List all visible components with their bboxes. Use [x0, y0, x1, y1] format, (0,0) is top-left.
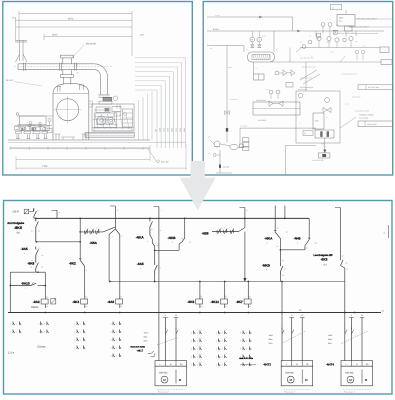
hatched inlet flange block	[103, 97, 112, 101]
vessel shell	[52, 93, 54, 140]
svg-text:2: 2	[197, 356, 198, 359]
svg-text:1: 1	[191, 364, 192, 367]
coil -9A5 (3)	[119, 295, 121, 299]
vessel skirt legs	[55, 134, 57, 140]
svg-text:2: 2	[246, 332, 247, 335]
svg-text:1: 1	[10, 331, 11, 334]
3-pole contact -N5A	[80, 231, 103, 233]
svg-text:xxx: xxx	[255, 68, 258, 70]
svg-text:Anl.Freigabe: Anl.Freigabe	[7, 221, 24, 225]
panel: P&ID diagram (top-right)	[203, 2, 393, 176]
svg-text:-9A5: -9A5	[107, 300, 114, 304]
relief group extra circles	[269, 90, 273, 94]
svg-text:Heat AUS Kette: Heat AUS Kette	[239, 357, 254, 360]
small box right of relief	[286, 83, 293, 88]
svg-text:XXXXX XXXXXX: XXXXX XXXXXX	[300, 86, 314, 89]
right side stacked dimension lines	[135, 89, 157, 91]
arrow to WE box	[324, 138, 326, 151]
wire: jog to coil column A	[36, 271, 46, 273]
svg-text:xx xx: xx xx	[262, 36, 266, 38]
svg-text:/64: /64	[16, 231, 20, 234]
svg-text:1: 1	[216, 356, 217, 359]
group F vertical from top x285 to rail	[284, 206, 286, 219]
equipment rectangle mid	[253, 102, 300, 115]
svg-text:1786: 1786	[167, 128, 170, 132]
svg-text:1-0-CLP-C7-R: 1-0-CLP-C7-R	[312, 159, 324, 162]
svg-text:2: 2	[116, 347, 117, 350]
svg-text:xx: xx	[246, 49, 248, 51]
svg-text:3dTL: 3dTL	[328, 342, 332, 345]
svg-text:2: 2	[197, 348, 198, 351]
svg-text:2: 2	[246, 340, 247, 343]
svg-text:xx: xx	[300, 123, 302, 125]
contact mirror column 2	[40, 322, 42, 326]
contact mirror column 3	[76, 322, 78, 326]
svg-text:xx xxx: xx xxx	[265, 89, 269, 91]
svg-text:2: 2	[197, 364, 198, 367]
svg-text:SEE DWG LINE CONT-P: SEE DWG LINE CONT-P	[357, 18, 378, 21]
pump skid base	[85, 132, 134, 137]
contact mirror column 7	[242, 331, 244, 335]
manifold valve handles	[29, 121, 32, 124]
svg-text:xxx: xxx	[332, 8, 335, 10]
dashed signal lines	[251, 31, 253, 37]
process feed line	[207, 30, 384, 32]
svg-text:2: 2	[222, 340, 223, 343]
svg-text:2082: 2082	[171, 128, 174, 132]
svg-text:1: 1	[74, 339, 75, 342]
svg-text:2: 2	[80, 347, 81, 350]
svg-text:1: 1	[240, 364, 241, 367]
contacts in box1 wires	[166, 328, 168, 335]
instrument cluster center-right	[317, 37, 321, 41]
svg-text:-9al5: -9al5	[269, 334, 273, 337]
bottom small connecting lines	[216, 172, 232, 174]
svg-text:a: a	[59, 212, 60, 214]
small stacked filter unit	[243, 138, 249, 142]
drain line down with tick	[219, 150, 221, 173]
svg-text:M13.6-A2: M13.6-A2	[86, 43, 97, 46]
svg-text:xx xxx: xx xxx	[330, 52, 334, 54]
svg-text:x-xxx: x-xxx	[228, 67, 232, 69]
contacts in box2 wires	[282, 328, 284, 335]
svg-text:2: 2	[116, 331, 117, 334]
svg-text:xxx: xxx	[210, 48, 213, 50]
dimension line row top	[19, 12, 132, 14]
svg-text:000-00-0000: 000-00-0000	[367, 123, 377, 126]
box3 N PE wires	[351, 318, 353, 361]
package internals	[298, 93, 302, 97]
mini instrument row above cluster	[321, 23, 325, 27]
line to right edge boxes	[300, 47, 380, 49]
svg-text:XXX-XXX-XXX: XXX-XXX-XXX	[368, 86, 380, 89]
svg-text:2: 2	[222, 348, 223, 351]
coil -9K7	[247, 295, 249, 299]
svg-text:1: 1	[191, 332, 192, 335]
pipe elbow to pump inlet	[94, 64, 108, 78]
vertical header line x346 to cluster	[345, 10, 347, 15]
thermal purge note	[340, 117, 356, 128]
contact mirror column 5	[193, 331, 195, 335]
svg-text:-9K11: -9K11	[211, 300, 220, 304]
svg-text:2: 2	[222, 356, 223, 359]
svg-text:xx xxxxxx: xx xxxxxx	[240, 126, 247, 128]
top-right control box	[337, 15, 355, 27]
contact -8K6 aux below rail	[35, 218, 37, 221]
svg-text:1: 1	[216, 340, 217, 343]
box3 mechanical link diagonal	[341, 331, 368, 344]
svg-text:2: 2	[246, 348, 247, 351]
svg-text:1: 1	[191, 348, 192, 351]
contact -9K4 column D from rail	[149, 218, 151, 220]
svg-text:Pxxxx xxxx xT: Pxxxx xxxx xT	[344, 391, 355, 394]
vacuum pump circle symbol	[214, 141, 220, 147]
contact mirror column 1	[12, 322, 14, 326]
svg-text:MOV: MOV	[339, 17, 344, 20]
svg-text:-9A13: -9A13	[21, 282, 30, 286]
wire: drop to motor box 2 L	[281, 282, 283, 361]
wire: column C left drop to mid bus	[108, 235, 110, 282]
svg-text:-9A2: -9A2	[33, 300, 40, 304]
svg-text:04-1: 04-1	[339, 20, 343, 23]
svg-text:3040: 3040	[52, 34, 58, 37]
svg-text:2: 2	[80, 339, 81, 342]
svg-text:-9K2: -9K2	[69, 261, 76, 265]
svg-text:2: 2	[44, 331, 45, 334]
svg-text:-N59: -N59	[202, 232, 209, 236]
panel: mechanical drawing (top-left)	[3, 2, 193, 176]
svg-text:2: 2	[116, 323, 117, 326]
svg-text:2156: 2156	[158, 128, 161, 132]
svg-text:XX-XXXX: XX-XXXX	[258, 119, 267, 122]
contact -8K6 top entry	[33, 209, 35, 212]
svg-text:1: 1	[216, 332, 217, 335]
svg-text:767: 767	[154, 129, 157, 132]
coil -9K4	[84, 295, 86, 299]
svg-text:1: 1	[110, 347, 111, 350]
svg-text:|>: |>	[37, 209, 38, 212]
svg-text:xx: xx	[230, 131, 232, 133]
svg-text:2: 2	[116, 355, 117, 358]
svg-text:Pxxxx xxxx xT: Pxxxx xxxx xT	[158, 391, 169, 394]
wire: coil6 drop	[247, 281, 249, 283]
svg-text:2: 2	[222, 364, 223, 367]
svg-text:1: 1	[25, 287, 26, 290]
wire: join F contacts	[280, 249, 305, 251]
wire: x244.9 from top	[244, 207, 246, 227]
baseline with ticks	[10, 147, 150, 149]
svg-text:xx: xx	[326, 117, 328, 119]
svg-text:VL: VL	[304, 132, 306, 135]
motor starter box 2 -N4T2	[281, 361, 313, 367]
svg-text:1: 1	[110, 323, 111, 326]
svg-text:-9al5: -9al5	[328, 334, 332, 337]
manifold support legs	[16, 134, 18, 138]
long horizontal process line mid	[240, 127, 316, 129]
junction mid bus left end	[109, 281, 111, 283]
svg-text:VSD: VSD	[315, 120, 320, 123]
svg-text:2695: 2695	[183, 128, 186, 132]
svg-text:-9A5: -9A5	[137, 262, 144, 266]
svg-text:-9a15: -9a15	[144, 332, 149, 335]
gray down arrow between panels	[180, 161, 216, 210]
valve on vertical line x227	[225, 111, 230, 115]
svg-text:1: 1	[74, 347, 75, 350]
bottom dimension lines	[16, 158, 150, 160]
valve symbols under bubbles	[251, 45, 255, 48]
svg-text:xx xxx xxxx xxxx: xx xxx xxxx xxxx	[300, 78, 312, 80]
relief valve group	[283, 70, 287, 76]
contact mirror column 4	[112, 322, 114, 326]
svg-text:1: 1	[74, 323, 75, 326]
dashed package boundary	[296, 91, 340, 143]
svg-text:1: 1	[240, 340, 241, 343]
stub wire top x57	[56, 210, 58, 218]
wire: coil4 drop	[199, 281, 201, 283]
svg-text:1: 1	[10, 323, 11, 326]
contact mirror column 6	[217, 331, 219, 335]
pump small fittings	[97, 118, 104, 124]
motor starter box 3 -N4T4	[341, 361, 373, 367]
svg-text:xx: xx	[309, 36, 311, 38]
contacts in box3 wires	[345, 328, 347, 335]
box2 mechanical link diagonal	[282, 331, 306, 344]
wire: join of D contacts	[155, 249, 179, 251]
wire: parallel branch -9A13	[10, 271, 36, 273]
svg-text:2: 2	[16, 331, 17, 334]
leader note bottom right	[148, 149, 156, 161]
coil -9K9	[199, 295, 201, 299]
rail end corner to -N45	[308, 218, 310, 238]
svg-text:2: 2	[197, 340, 198, 343]
svg-text:2: 2	[16, 323, 17, 326]
contact fork column C	[109, 229, 115, 235]
svg-text:XXX-XX-XXXX CONT: XXX-XX-XXXX CONT	[338, 32, 356, 35]
wire: coil5 drop	[224, 281, 226, 283]
wire: main top rail	[36, 217, 309, 219]
svg-text:No.1 A2: No.1 A2	[161, 160, 169, 163]
svg-text:2560: 2560	[179, 128, 182, 132]
vertical riser tee on pipe	[62, 58, 64, 64]
isolator symbol Q1	[24, 209, 28, 214]
process line top	[215, 16, 293, 18]
svg-text:1: 1	[191, 356, 192, 359]
svg-text:xx xxx xxxx xxxxx x xx: xx xxx xxxx xxxxx x xx	[341, 74, 357, 76]
pipe support bracket left	[19, 40, 21, 61]
right mid annotation boxes	[358, 85, 393, 90]
svg-text:1.5 s: 1.5 s	[8, 351, 15, 355]
wire: column C right drop to coil3	[119, 235, 121, 296]
svg-text:-N45: -N45	[294, 237, 301, 241]
svg-text:1: 1	[191, 340, 192, 343]
svg-text:DIN NC: DIN NC	[285, 372, 294, 375]
svg-text:5l5w: 5l5w	[144, 336, 149, 339]
motor starter box 1 -9417	[155, 361, 187, 367]
coil -9A2 with Elteko label	[44, 295, 46, 299]
line from cluster down-left	[296, 48, 302, 53]
svg-text:XX-XXX: XX-XXX	[223, 166, 230, 169]
svg-text:xxx: xxx	[208, 137, 211, 139]
svg-text:5l5w: 5l5w	[269, 338, 274, 341]
svg-text:xx: xx	[276, 49, 278, 51]
instrument bubble PI	[250, 37, 255, 42]
group F vertical from top x275	[274, 206, 276, 231]
svg-text:El.foko: El.foko	[38, 346, 46, 349]
branch line to instruments	[213, 45, 244, 47]
pipe flange pairs	[23, 63, 25, 71]
left entry line	[207, 16, 215, 18]
box1 N PE wires	[165, 318, 167, 361]
svg-text:2: 2	[246, 364, 247, 367]
wire: mid horizontal bus	[110, 281, 345, 283]
svg-text:-: -	[41, 350, 42, 353]
svg-text:xxx: xxx	[355, 41, 358, 43]
svg-text:-9A5: -9A5	[21, 247, 28, 251]
panel: relay circuit schematic (bottom)	[4, 201, 393, 395]
svg-text:2163: 2163	[163, 128, 166, 132]
svg-text:1: 1	[240, 332, 241, 335]
right edge leader lines	[355, 33, 378, 35]
svg-text:-9K4: -9K4	[72, 300, 79, 304]
svg-text:Pxxxx xxxx xT: Pxxxx xxxx xT	[284, 391, 295, 394]
svg-text:Elteko: Elteko	[31, 306, 39, 309]
floor line	[8, 139, 150, 141]
svg-text:/15 6: /15 6	[13, 210, 20, 214]
svg-text:-NKA: -NKA	[264, 237, 273, 241]
box2 N PE wires	[291, 318, 293, 361]
svg-text:B-103: B-103	[213, 28, 219, 31]
svg-text:2: 2	[116, 339, 117, 342]
wire: x340.5 from top	[340, 208, 342, 259]
svg-text:XXX-XXX-XXX CONT-P: XXX-XXX-XXX CONT-P	[350, 26, 370, 29]
svg-text:2172: 2172	[175, 128, 178, 132]
svg-text:2: 2	[44, 323, 45, 326]
svg-text:-9K7: -9K7	[236, 300, 243, 304]
svg-text:2: 2	[222, 332, 223, 335]
wire: branch to K2 column	[37, 241, 81, 243]
svg-text:7195: 7195	[42, 165, 48, 168]
svg-text:xxx xxx xxxx xxxxx: xxx xxx xxxx xxxxx	[302, 67, 315, 69]
svg-text:xxx: xxx	[300, 42, 303, 44]
contact -5K3	[341, 258, 345, 268]
svg-text:-N5A: -N5A	[90, 241, 98, 245]
svg-text:xxx: xxx	[336, 24, 339, 26]
vessel manway circle	[57, 99, 79, 121]
pump height dimension lines	[138, 100, 140, 140]
svg-text:xxxxx xxxxxx: xxxxx xxxxxx	[298, 89, 307, 91]
box1 mechanical link diagonal	[157, 338, 178, 346]
left valve manifold assembly	[17, 115, 45, 117]
contact -NKB column D right	[184, 218, 186, 220]
svg-text:-5K3: -5K3	[321, 257, 328, 261]
coil -9K11	[224, 295, 226, 299]
svg-text:xxxx xxxxxx: xxxx xxxxxx	[352, 97, 361, 99]
breaker glyph after coil -9A2	[51, 299, 56, 304]
svg-text:1: 1	[74, 331, 75, 334]
svg-text:1: 1	[110, 339, 111, 342]
svg-text:-9417: -9417	[137, 350, 144, 353]
svg-text:DIN NC: DIN NC	[345, 372, 354, 375]
svg-text:3dTL: 3dTL	[269, 342, 273, 345]
svg-text:xxx xx: xxx xx	[345, 104, 349, 106]
svg-text:-NKB: -NKB	[262, 263, 271, 267]
vertical line drum to cluster	[305, 62, 307, 91]
svg-text:xx: xx	[311, 56, 313, 58]
wire top x115.4 from panel top	[114, 206, 116, 229]
svg-text:3dTL: 3dTL	[144, 340, 148, 343]
svg-text:1: 1	[240, 348, 241, 351]
svg-text:-9K9: -9K9	[187, 300, 194, 304]
instrument bubble TI	[257, 37, 262, 42]
svg-text:COND UNIT: COND UNIT	[256, 99, 267, 102]
svg-text:6473: 6473	[68, 17, 74, 20]
vacuum pump unit	[92, 104, 134, 131]
line to bottom boundary	[286, 144, 316, 146]
contact to box1	[148, 353, 151, 355]
svg-text:xx xxx: xx xxx	[215, 15, 220, 17]
horizontal drum / heat exchanger	[248, 52, 275, 62]
extra pipe fittings left of vessel	[47, 129, 52, 133]
wire: bottom rail X1	[8, 312, 381, 314]
vessel top nozzles	[57, 87, 59, 92]
svg-text:2: 2	[197, 332, 198, 335]
wire: x244.9 down to mid bus with arrow	[244, 232, 246, 280]
long vertical wire x159 to motor box 1	[158, 207, 160, 361]
svg-text:xxxx: xxxx	[323, 146, 326, 148]
svg-text:1: 1	[216, 348, 217, 351]
svg-text:-NKB: -NKB	[168, 236, 177, 240]
svg-text:1: 1	[216, 364, 217, 367]
svg-text:2: 2	[80, 331, 81, 334]
main horizontal suction pipe	[18, 63, 94, 65]
extra vertical drops from feed line	[315, 31, 317, 37]
svg-text:1: 1	[38, 331, 39, 334]
arrow marks on feed line	[297, 30, 300, 32]
svg-text:1: 1	[38, 323, 39, 326]
drum drain line and traps	[253, 62, 255, 74]
slanted connection lines	[300, 70, 317, 80]
svg-text:N13-A2: N13-A2	[6, 79, 14, 82]
svg-text:TO V-00000: TO V-00000	[359, 116, 368, 119]
svg-text:Rest AUS Kette: Rest AUS Kette	[131, 345, 146, 348]
vessel bottom outlet piping	[62, 137, 64, 140]
svg-text:5l5w: 5l5w	[328, 338, 333, 341]
underline below mirror column 7	[241, 364, 257, 366]
svg-text:DIN NC: DIN NC	[159, 372, 168, 375]
svg-text:xx xxxxxx: xx xxxxxx	[230, 99, 237, 101]
blower oval symbol	[230, 144, 238, 149]
svg-text:xx: xx	[208, 153, 210, 155]
svg-text:-NKA: -NKA	[136, 235, 145, 239]
svg-text:-N4T4: -N4T4	[326, 363, 334, 367]
svg-text:THERMAL PURGE: THERMAL PURGE	[359, 114, 374, 117]
svg-text:1: 1	[110, 331, 111, 334]
svg-text:-N4T2: -N4T2	[263, 363, 271, 367]
pump interior hatch texture	[95, 114, 98, 129]
svg-text:4: 4	[24, 252, 25, 255]
svg-text:2: 2	[80, 323, 81, 326]
dimension extension lines	[15, 17, 17, 40]
svg-text:1: 1	[110, 355, 111, 358]
svg-text:-8K6: -8K6	[14, 226, 22, 230]
svg-text:xx xx: xx xx	[362, 46, 366, 48]
